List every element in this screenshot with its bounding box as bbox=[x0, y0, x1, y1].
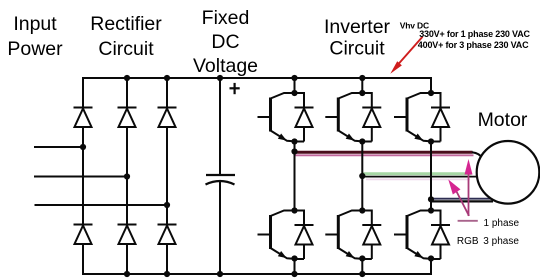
svg-text:Motor: Motor bbox=[478, 109, 528, 131]
svg-text:1 phase: 1 phase bbox=[484, 218, 520, 229]
svg-text:RGB: RGB bbox=[457, 236, 479, 247]
svg-text:Circuit: Circuit bbox=[329, 38, 385, 60]
svg-text:Rectifier: Rectifier bbox=[90, 13, 162, 35]
svg-text:400V+ for 3 phase 230 VAC: 400V+ for 3 phase 230 VAC bbox=[418, 40, 529, 50]
svg-text:DC: DC bbox=[211, 31, 239, 53]
svg-text:Input: Input bbox=[13, 13, 57, 35]
svg-text:Fixed: Fixed bbox=[202, 7, 250, 29]
svg-text:330V+ for 1 phase 230 VAC: 330V+ for 1 phase 230 VAC bbox=[419, 29, 530, 39]
svg-text:Voltage: Voltage bbox=[193, 55, 258, 77]
svg-text:Inverter: Inverter bbox=[324, 16, 391, 38]
svg-text:Power: Power bbox=[7, 38, 63, 60]
svg-text:3 phase: 3 phase bbox=[483, 236, 519, 247]
svg-text:Circuit: Circuit bbox=[98, 38, 154, 60]
